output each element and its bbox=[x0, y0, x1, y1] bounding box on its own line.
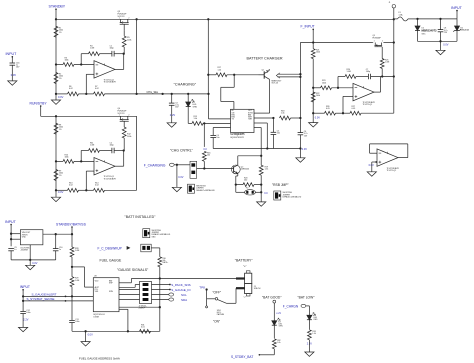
svg-text:"BATTERY": "BATTERY" bbox=[235, 259, 254, 263]
svg-text:GND: GND bbox=[152, 236, 157, 238]
svg-text:-33DBVR: -33DBVR bbox=[20, 249, 28, 251]
svg-text:GND: GND bbox=[22, 236, 27, 238]
node divider mid bbox=[71, 266, 73, 268]
capacitor C9 reg in bbox=[8, 248, 14, 250]
svg-text:FUEL GAUGE ADDRESS 0xAA: FUEL GAUGE ADDRESS 0xAA bbox=[79, 356, 120, 360]
svg-text:0.0V: 0.0V bbox=[315, 116, 320, 119]
node stage1 plus chain junction bbox=[85, 93, 87, 95]
svg-text:100p: 100p bbox=[110, 145, 114, 147]
wire reg bottom rail bbox=[11, 259, 56, 261]
resistor R29 divider bottom bbox=[70, 277, 74, 287]
wire switch to battery minus bbox=[227, 302, 237, 304]
svg-text:0.0V: 0.0V bbox=[32, 262, 37, 265]
wire ts cap to U2 pin4 bbox=[213, 127, 230, 129]
capacitor C10 reg out bbox=[55, 234, 57, 248]
node bat pin rail junction bbox=[266, 147, 268, 149]
wire jumper gnd branch bbox=[176, 165, 178, 188]
wire fuse to diode node bbox=[408, 18, 418, 20]
node rail lower tap bbox=[312, 112, 314, 114]
svg-text:1.0M: 1.0M bbox=[75, 250, 80, 252]
diode D1 charge led bbox=[187, 94, 189, 102]
wire stage2 right vertical bbox=[136, 116, 138, 190]
svg-text:S_PACK_SNS: S_PACK_SNS bbox=[171, 283, 190, 287]
ground chg cntrl bbox=[172, 187, 181, 191]
svg-text:2: 2 bbox=[128, 115, 129, 117]
svg-text:TP8: TP8 bbox=[199, 285, 205, 289]
resistor R9 divider bottom stage2 bbox=[54, 170, 58, 181]
svg-text:MBRS340T3: MBRS340T3 bbox=[422, 28, 438, 32]
node stage2 gnd bbox=[55, 189, 57, 191]
svg-text:100k: 100k bbox=[127, 39, 131, 41]
resistor R24 feedback stage3 bbox=[345, 75, 356, 79]
capacitor C6 sys bbox=[298, 132, 304, 134]
wire left emitter vertical from top rail bbox=[207, 19, 209, 94]
svg-text:2.2V: 2.2V bbox=[170, 113, 176, 117]
wire reg output bbox=[43, 233, 72, 235]
resistor R31 sense bbox=[140, 329, 151, 333]
resistor R22 rail bottom bbox=[311, 92, 315, 102]
resistor R12 gate pulldown stage2 bbox=[122, 127, 126, 138]
resistor R5 gate pulldown bbox=[122, 36, 126, 47]
wire plus input stage1 bbox=[85, 74, 87, 94]
svg-text:0.0V: 0.0V bbox=[58, 95, 64, 99]
wire Q1 gate column bbox=[123, 24, 125, 30]
ground protect bbox=[440, 41, 442, 50]
zener D6 tvs bbox=[456, 19, 458, 26]
svg-text:INPUT: INPUT bbox=[20, 285, 30, 289]
diode D7 bat good led bbox=[272, 321, 277, 326]
wire header pin2 out bbox=[152, 289, 170, 291]
wire C3 to ground bbox=[171, 105, 173, 123]
svg-text:2: 2 bbox=[382, 41, 383, 43]
wire rail x313 bbox=[312, 43, 314, 49]
svg-text:200: 200 bbox=[244, 180, 247, 182]
wire port to jumper bbox=[174, 164, 190, 166]
svg-text:S_GAUGE_IO: S_GAUGE_IO bbox=[171, 288, 191, 292]
resistor R1 divider top bbox=[54, 26, 58, 37]
svg-text:0.02: 0.02 bbox=[95, 185, 99, 187]
svg-text:SOT-23: SOT-23 bbox=[118, 113, 126, 115]
svg-text:0.02: 0.02 bbox=[95, 88, 99, 90]
svg-text:SMC: SMC bbox=[422, 33, 427, 35]
node chg_sel junctions bbox=[161, 93, 163, 95]
wire charger right vertical bbox=[299, 43, 301, 133]
svg-text:10n: 10n bbox=[216, 137, 219, 139]
svg-text:2.2V: 2.2V bbox=[23, 319, 28, 322]
connector J4 chg jumper bbox=[190, 161, 197, 178]
node stage1 minus tap bbox=[55, 63, 57, 65]
transistor Q2 PMOS run switch bbox=[120, 116, 122, 119]
wire to opamp minus bbox=[74, 64, 94, 66]
wire F_INPUT stub bbox=[312, 29, 314, 43]
wire RUN stub bbox=[40, 106, 42, 117]
capacitor C11 gauge bbox=[69, 319, 75, 321]
svg-text:100p: 100p bbox=[110, 48, 114, 50]
capacitor C12 gauge rail bbox=[20, 310, 26, 312]
svg-text:100n: 100n bbox=[75, 321, 79, 323]
svg-text:GRN: GRN bbox=[193, 106, 198, 108]
wire main input vertical bbox=[393, 19, 395, 113]
svg-text:0.02: 0.02 bbox=[69, 185, 73, 187]
wire header pin3 out bbox=[152, 294, 169, 296]
ground C3 bbox=[167, 123, 176, 127]
wire lower chain stage3 bbox=[313, 112, 324, 114]
fuse F1 bbox=[394, 18, 398, 20]
svg-text:F_C_DBGWKUP: F_C_DBGWKUP bbox=[98, 246, 122, 250]
ground input cap bbox=[8, 81, 17, 85]
transistor Q1 PMOS standby switch bbox=[120, 19, 122, 22]
node feedback tap stage2 bbox=[80, 160, 82, 162]
ground stage2 bbox=[55, 190, 57, 197]
wire U2 out pin bbox=[254, 117, 273, 119]
capacitor C16 input bbox=[10, 62, 16, 64]
wire plus input stage3 bbox=[343, 95, 353, 97]
wire plus input stage2 bbox=[85, 171, 87, 190]
node diode junction bbox=[416, 18, 418, 20]
wire top rail bbox=[56, 18, 394, 20]
wire reg input rail bbox=[10, 224, 12, 246]
wire port to led chain bbox=[306, 305, 310, 307]
capacitor C1 feedback stage1 bbox=[111, 51, 113, 57]
svg-text:"RSB JMP": "RSB JMP" bbox=[272, 183, 289, 187]
node rail minus tap bbox=[312, 87, 314, 89]
wire minus input stage3 bbox=[313, 87, 320, 89]
port F_CHARGING bbox=[169, 163, 174, 166]
svg-text:INPUT: INPUT bbox=[451, 6, 463, 10]
ground buffer bbox=[367, 172, 376, 176]
svg-text:1%: 1% bbox=[59, 129, 62, 131]
wire header pin1 out bbox=[152, 284, 170, 286]
node charger gnd rail bbox=[299, 147, 301, 149]
svg-text:DEFAULT=INSTALLED: DEFAULT=INSTALLED bbox=[283, 195, 302, 198]
capacitor C8 input bulk bbox=[440, 19, 442, 30]
wire divider to cap bbox=[71, 296, 73, 320]
svg-text:SCL: SCL bbox=[181, 293, 187, 297]
wire batvss stub bbox=[71, 227, 73, 235]
wire opamp3 output bbox=[374, 91, 381, 93]
switch S1 terminals bbox=[207, 298, 216, 300]
wire feedback vertical stage1 bbox=[80, 54, 82, 65]
node rsb tee bbox=[260, 155, 262, 157]
svg-text:TLV271IDBVR: TLV271IDBVR bbox=[104, 178, 117, 180]
svg-text:"OFF": "OFF" bbox=[212, 291, 221, 295]
wire gauge vss down bbox=[119, 308, 128, 310]
node cntrl jumper junction bbox=[203, 167, 205, 169]
wire input stub bbox=[11, 56, 13, 63]
wire port to R30 bbox=[151, 247, 160, 249]
resistor R33 bat low bbox=[308, 330, 312, 340]
resistor R25 to mosfet bbox=[380, 59, 384, 69]
svg-text:10k: 10k bbox=[207, 155, 210, 157]
node feedback tap stage1 bbox=[80, 63, 82, 65]
svg-text:"ON": "ON" bbox=[213, 320, 220, 324]
capacitor C2 feedback stage2 bbox=[111, 148, 113, 154]
svg-text:GRN: GRN bbox=[279, 326, 284, 328]
svg-text:0.05: 0.05 bbox=[326, 108, 330, 110]
node feedback-main junction bbox=[393, 75, 395, 77]
svg-text:1.0M: 1.0M bbox=[385, 62, 390, 64]
wire tp to switch bbox=[206, 290, 208, 307]
wire Q2 gate column bbox=[123, 121, 125, 127]
transistor Q3 PNP charger bbox=[259, 74, 265, 76]
wire INPUT stub right bbox=[456, 10, 458, 19]
node gnd branch bbox=[176, 164, 178, 166]
resistor R17 emitter bbox=[216, 73, 227, 77]
resistor R28 divider top bbox=[70, 247, 74, 257]
transistor Q5 NPN rsb bbox=[231, 165, 240, 174]
svg-text:"+": "+" bbox=[243, 264, 246, 268]
svg-text:S_STDBY_BAT: S_STDBY_BAT bbox=[231, 355, 253, 359]
resistor R10 input stage2 bbox=[63, 160, 74, 164]
node divider bottom junction bbox=[71, 295, 73, 297]
wire buffer plus to gnd bbox=[372, 161, 377, 163]
svg-text:0.02: 0.02 bbox=[69, 88, 73, 90]
wire gauge srn out bbox=[119, 306, 160, 308]
op-amp U1A stage1 bbox=[94, 61, 115, 78]
ground regulator bbox=[29, 260, 31, 265]
wire feedback top stage3 bbox=[338, 76, 345, 78]
svg-text:TLV271-Q1: TLV271-Q1 bbox=[363, 104, 373, 106]
svg-text:100k: 100k bbox=[65, 157, 69, 159]
wire plus chain stage2 bbox=[56, 189, 68, 191]
svg-text:100p: 100p bbox=[366, 71, 370, 73]
ground rsb bbox=[260, 192, 262, 202]
node feedback-output junction stage1 bbox=[123, 53, 125, 55]
resistor R20 rsb horizontal bbox=[243, 183, 254, 187]
svg-text:S2B-PH: S2B-PH bbox=[254, 288, 261, 290]
wire gauge pins to header bbox=[119, 286, 135, 288]
svg-text:SOT-23: SOT-23 bbox=[118, 16, 126, 18]
svg-text:"CHARGING": "CHARGING" bbox=[174, 82, 197, 86]
svg-text:J1: J1 bbox=[389, 2, 391, 4]
node tp junction bbox=[205, 288, 207, 290]
op-amp U1B stage2 bbox=[94, 158, 115, 175]
wire gauge signal 2 bbox=[23, 300, 93, 302]
wire minus input stage2 bbox=[56, 160, 63, 162]
svg-text:TLV271IDBVR: TLV271IDBVR bbox=[104, 82, 117, 84]
svg-text:DMN2046: DMN2046 bbox=[241, 168, 249, 170]
resistor R15 led bbox=[192, 122, 203, 126]
svg-text:S_GAUGE/ALERT: S_GAUGE/ALERT bbox=[32, 292, 57, 296]
wire resistor to label bbox=[273, 349, 275, 355]
svg-text:INPUT: INPUT bbox=[6, 52, 18, 56]
resistor R23 input stage3 bbox=[321, 86, 332, 90]
resistor R27 chain b stage3 bbox=[350, 111, 361, 115]
resistor R26 chain a stage3 bbox=[325, 111, 336, 115]
wire battery minus pad bbox=[236, 287, 245, 289]
svg-text:STANDBY: STANDBY bbox=[49, 5, 66, 9]
wire ground rail stage1 bbox=[55, 93, 57, 95]
IC U5 LDO regulator bbox=[20, 230, 43, 245]
svg-text:0.01: 0.01 bbox=[141, 327, 145, 329]
svg-text:1: 1 bbox=[374, 41, 375, 43]
solder jumper SJ3 bbox=[143, 229, 150, 238]
wire R30 down to pack rail bbox=[159, 267, 161, 279]
svg-text:1u: 1u bbox=[59, 249, 61, 251]
svg-text:100k: 100k bbox=[322, 82, 326, 84]
resistor R21 rail top bbox=[311, 49, 315, 59]
connector J2 gauge signals header bbox=[140, 282, 152, 304]
testpoint TP9 bbox=[273, 300, 276, 303]
svg-text:DEFAULT=INSTALLED: DEFAULT=INSTALLED bbox=[196, 189, 215, 192]
wire stage1 right vertical bbox=[136, 19, 138, 94]
wire double bus emitter bbox=[278, 73, 301, 75]
svg-text:1%: 1% bbox=[59, 175, 62, 177]
svg-text:FDN340P: FDN340P bbox=[373, 37, 382, 39]
wire C12 to gnd bbox=[22, 314, 24, 328]
svg-text:0.0V: 0.0V bbox=[11, 73, 17, 77]
wire cntrl column to U2 pin3 bbox=[204, 122, 230, 124]
wire reg input pins bbox=[11, 233, 20, 235]
resistor R18 out bbox=[280, 116, 291, 120]
wire jumper to transistor base bbox=[197, 168, 232, 170]
wire cap to gnd bbox=[11, 65, 13, 81]
svg-text:"CHG CNTRL": "CHG CNTRL" bbox=[170, 148, 194, 152]
node srn junction bbox=[159, 306, 161, 308]
wire emitter to top bbox=[268, 69, 270, 71]
wire mid horizontal y42.5 bbox=[300, 42, 372, 44]
wire protect gnd rail bbox=[418, 40, 458, 42]
resistor R30 pack sense bbox=[158, 257, 162, 267]
resistor R3 input stage1 bbox=[63, 63, 74, 67]
svg-text:DGSR: DGSR bbox=[94, 316, 100, 318]
svg-text:FUEL GAUGE: FUEL GAUGE bbox=[100, 258, 122, 262]
diode D8 bat low led bbox=[307, 315, 312, 320]
ground bat low bbox=[305, 352, 314, 356]
svg-text:1.0M: 1.0M bbox=[90, 145, 95, 147]
svg-text:STANDBY/BATVSS: STANDBY/BATVSS bbox=[56, 222, 87, 226]
node feedback mos tap bbox=[381, 75, 383, 77]
wire tp to led bbox=[273, 303, 275, 321]
op-amp U4 buffer bbox=[377, 149, 398, 166]
connector J3 battery bbox=[245, 273, 252, 283]
svg-text:"-": "-" bbox=[243, 296, 246, 300]
node cap junction bbox=[272, 117, 274, 119]
wire opamp2 output bbox=[115, 165, 124, 167]
svg-text:CHG_SEL: CHG_SEL bbox=[147, 91, 159, 94]
svg-text:"BAT LOW": "BAT LOW" bbox=[298, 295, 316, 299]
svg-text:SDA: SDA bbox=[181, 298, 187, 302]
wire STANDBY stub bbox=[55, 9, 57, 20]
wire emitter resistor ends bbox=[227, 74, 259, 76]
wire gauge left rail bbox=[22, 289, 24, 311]
transistor Q4 PMOS sense bbox=[374, 43, 376, 46]
svg-text:100k: 100k bbox=[316, 95, 320, 97]
ground rail x313 bbox=[309, 123, 318, 127]
svg-text:100k: 100k bbox=[316, 52, 320, 54]
wire pack+ rail bbox=[119, 282, 131, 284]
svg-text:1.0k: 1.0k bbox=[312, 333, 315, 335]
wire D1 to R15 bbox=[187, 107, 189, 124]
IC U2 battery charger bbox=[231, 109, 255, 132]
ground stage1 bbox=[55, 94, 57, 100]
svg-text:1.0k: 1.0k bbox=[281, 113, 285, 115]
capacitor C7 feedback stage3 bbox=[367, 74, 369, 80]
wire srn vertical bbox=[159, 279, 161, 332]
resistor R13 sense chain a stage2 bbox=[68, 188, 79, 192]
diode D5 reverse protect bbox=[417, 19, 419, 26]
ground charger bbox=[296, 158, 305, 162]
connector J5 wakeup jumper bbox=[141, 244, 151, 252]
node stage2 minus tap bbox=[55, 160, 57, 162]
node pack junction bbox=[159, 277, 161, 279]
wire feedback top stage1 bbox=[81, 53, 88, 55]
ground fuel gauge bbox=[85, 331, 87, 341]
svg-text:F_CHARGING: F_CHARGING bbox=[144, 164, 166, 168]
wire collector down to U2 bbox=[268, 78, 270, 80]
svg-text:0.0V: 0.0V bbox=[443, 43, 448, 46]
node stage2 plus chain junction bbox=[85, 189, 87, 191]
resistor R2 divider bottom bbox=[54, 73, 58, 84]
solder jumper SJ1 bbox=[188, 184, 195, 193]
wire plus chain stage1 bbox=[56, 93, 68, 95]
capacitor C5 out bbox=[272, 118, 274, 132]
resistor R19 rsb vertical bbox=[259, 165, 263, 175]
wire opamp1 output bbox=[115, 68, 124, 70]
IC U7 fuel gauge bbox=[93, 278, 119, 312]
svg-text:1%: 1% bbox=[59, 32, 62, 34]
wire led to resistor bbox=[273, 325, 275, 338]
wire resistor to gnd bat low bbox=[308, 340, 310, 352]
svg-text:0.05: 0.05 bbox=[352, 108, 356, 110]
svg-text:SMAJ18A: SMAJ18A bbox=[460, 29, 469, 32]
node top rail junctions bbox=[55, 18, 57, 20]
wire feedback top stage2 bbox=[81, 150, 88, 152]
op-amp U3 stage3 bbox=[353, 83, 374, 100]
wire gauge signal 1 bbox=[23, 295, 93, 297]
port SDA bbox=[169, 298, 174, 301]
svg-text:10n: 10n bbox=[277, 133, 280, 135]
svg-text:1.0M: 1.0M bbox=[347, 71, 352, 73]
svg-text:0.0V: 0.0V bbox=[88, 334, 93, 337]
svg-text:1.0k: 1.0k bbox=[277, 342, 280, 344]
svg-text:1.0M: 1.0M bbox=[90, 48, 95, 50]
svg-text:BATTERY CHARGER: BATTERY CHARGER bbox=[247, 57, 283, 61]
svg-text:1.0k: 1.0k bbox=[218, 69, 222, 71]
svg-text:PACK+: PACK+ bbox=[163, 261, 169, 264]
wire to Q5 collector bbox=[238, 155, 261, 157]
switch S1 blade bbox=[218, 300, 227, 304]
resistor R4 feedback stage1 bbox=[89, 52, 100, 56]
svg-text:"BAT GOOD": "BAT GOOD" bbox=[262, 295, 282, 299]
wire header pin4 out bbox=[152, 299, 169, 301]
svg-text:204HLF: 204HLF bbox=[139, 308, 146, 310]
svg-text:1u: 1u bbox=[14, 249, 16, 251]
svg-text:BQ24075RGTR: BQ24075RGTR bbox=[231, 137, 245, 139]
resistor R6 sense chain a bbox=[68, 92, 79, 96]
svg-text:100k: 100k bbox=[65, 60, 69, 62]
wire R5 to feedback node bbox=[123, 30, 125, 36]
svg-text:F_INPUT: F_INPUT bbox=[301, 25, 315, 29]
resistor R16 cntrl pullup bbox=[202, 151, 206, 161]
wire gauge bottom rail bbox=[72, 330, 160, 332]
port F_CHRGN bbox=[301, 304, 306, 307]
svg-text:TLV271-Q1: TLV271-Q1 bbox=[387, 170, 397, 172]
wire step from emitter node to U2 pin1 bbox=[233, 75, 235, 88]
wire R15 to pin bbox=[203, 122, 204, 124]
wire left rail stage2 bbox=[55, 116, 57, 190]
svg-text:"BATT INSTALLED": "BATT INSTALLED" bbox=[125, 215, 157, 219]
node led-resistor pin junction bbox=[203, 122, 205, 124]
svg-text:TMR: TMR bbox=[248, 119, 253, 121]
wire chg_sel to U2 pin2 bbox=[208, 94, 210, 119]
svg-text:0.0V: 0.0V bbox=[178, 176, 183, 179]
node out rail junction bbox=[299, 117, 301, 119]
resistor R8 divider top stage2 bbox=[54, 123, 58, 134]
wire oval to gnd bbox=[255, 191, 261, 193]
resistor R14 sense chain b stage2 bbox=[94, 188, 105, 192]
ground gauge rail bbox=[19, 327, 28, 331]
